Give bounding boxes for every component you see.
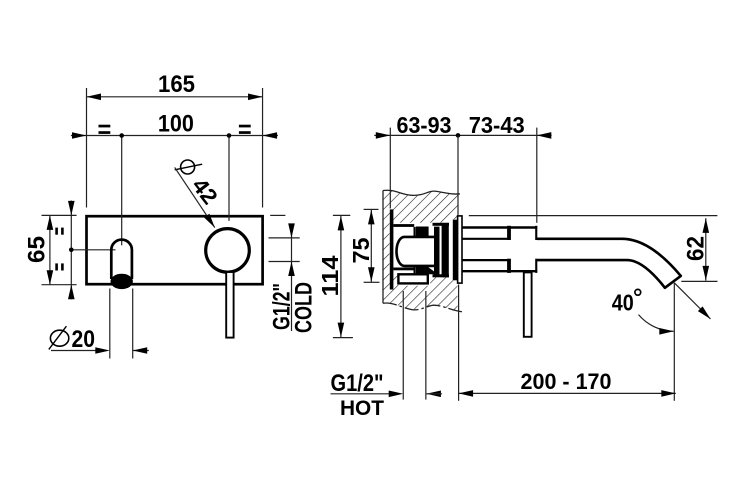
svg-text:20: 20 <box>72 326 96 353</box>
svg-text:COLD: COLD <box>291 282 318 333</box>
svg-text:73-43: 73-43 <box>469 112 525 138</box>
svg-text:75: 75 <box>348 238 374 264</box>
svg-text:HOT: HOT <box>340 397 384 420</box>
svg-text:62: 62 <box>683 236 710 261</box>
svg-text:40: 40 <box>612 290 634 316</box>
svg-text:G1/2": G1/2" <box>331 370 384 397</box>
svg-text:200 - 170: 200 - 170 <box>521 369 612 394</box>
svg-text:114: 114 <box>317 255 343 296</box>
svg-text:63-93: 63-93 <box>397 112 452 138</box>
svg-text:100: 100 <box>158 111 194 138</box>
svg-text:65: 65 <box>23 236 50 263</box>
svg-text:42: 42 <box>187 173 223 209</box>
svg-text:165: 165 <box>158 71 195 98</box>
